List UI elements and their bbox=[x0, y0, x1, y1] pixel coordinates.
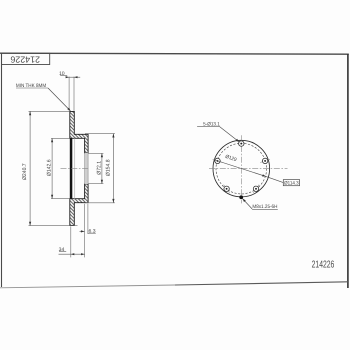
Ø129 diagonal line bbox=[215, 160, 266, 176]
drawing frame bottom line right part bbox=[175, 282, 348, 285]
dim Ø154.8 arrow up bbox=[112, 134, 114, 138]
dim Ø240.7 line bbox=[29, 111, 31, 225]
title block box bbox=[2, 53, 50, 64]
svg-text:10: 10 bbox=[59, 71, 65, 77]
boxed dim Ø114.3 arrow bbox=[262, 174, 266, 176]
hub bore band right edge bbox=[87, 153, 89, 184]
svg-text:Ø142.6: Ø142.6 bbox=[46, 159, 52, 176]
rotor upper half section (hatched) bbox=[70, 111, 88, 152]
dim Ø240.7 extension top bbox=[29, 110, 70, 112]
radial tick hole lower-left bbox=[224, 185, 230, 193]
radial tick hole right bbox=[260, 159, 270, 162]
dim 34 arrow right bbox=[81, 253, 85, 255]
dim Ø72.1 arrow up bbox=[101, 153, 103, 157]
dim Ø240.7 extension bottom bbox=[29, 225, 78, 227]
dim Ø240.7 arrow down bbox=[29, 222, 31, 226]
svg-text:Ø72.1: Ø72.1 bbox=[97, 161, 103, 175]
drawing frame right line bbox=[347, 54, 349, 288]
section centre line bbox=[61, 168, 89, 170]
dim 10 underline bbox=[60, 74, 67, 76]
note MIN THK 8MM arrow bbox=[67, 108, 70, 111]
svg-text:Ø240.7: Ø240.7 bbox=[22, 163, 28, 180]
bolt hole lower-right bbox=[253, 186, 258, 191]
hub outer circle bbox=[213, 140, 270, 197]
bolt hole left bbox=[215, 158, 220, 163]
dim 10 arrow left bbox=[66, 76, 70, 78]
dim Ø72.1 extension top bbox=[88, 152, 103, 154]
dim Ø154.8 extension top bbox=[85, 133, 115, 135]
bolt circle (dashed) bbox=[216, 143, 267, 194]
vertical centre line bbox=[240, 135, 242, 203]
note MIN THK 8MM leader bbox=[48, 88, 70, 111]
drawing frame bottom line bbox=[0, 285, 175, 288]
hub bore band left edge bbox=[84, 153, 86, 184]
dim 34 extension left bbox=[70, 226, 72, 257]
rotor right face thin line bbox=[74, 138, 76, 198]
svg-text:34: 34 bbox=[59, 247, 65, 253]
bolt hole right bbox=[262, 158, 267, 163]
dim 10 extension right bbox=[73, 77, 75, 111]
label M8x1.25-6H arrow bbox=[243, 199, 246, 202]
dim Ø240.7 arrow up bbox=[29, 111, 31, 115]
dim 10 extension left bbox=[68, 77, 70, 111]
dim 34 arrow left bbox=[71, 253, 75, 255]
dim Ø142.6 extension top bbox=[51, 137, 70, 139]
dim Ø154.8 arrow down bbox=[112, 199, 114, 203]
dim Ø142.6 extension bottom bbox=[51, 198, 70, 200]
dim 10 line bbox=[67, 76, 80, 78]
threaded hole M8 (filled) bbox=[239, 195, 243, 199]
label 5-Ø13.1 arrow bbox=[236, 139, 240, 142]
radial tick hole left bbox=[213, 159, 223, 162]
svg-text:214226: 214226 bbox=[312, 259, 335, 270]
drawing frame top line bbox=[0, 53, 349, 54]
dim Ø142.6 arrow up bbox=[51, 138, 53, 142]
svg-text:Ø129: Ø129 bbox=[224, 154, 237, 163]
dim 10 arrow right bbox=[74, 76, 78, 78]
bolt hole lower-left bbox=[224, 186, 229, 191]
hub bore band bbox=[85, 153, 88, 184]
dim 6.3 line bbox=[80, 230, 85, 232]
dim Ø72.1 extension bottom bbox=[88, 183, 103, 185]
boxed dim Ø114.3 box bbox=[283, 180, 299, 186]
rotor mid web thick line bbox=[70, 138, 73, 198]
dim 34 extension right bbox=[84, 204, 86, 258]
rotor lower half section (hatched) bbox=[70, 184, 88, 226]
dim 6.3 extension right bbox=[87, 204, 89, 234]
note MIN THK 8MM underline bbox=[16, 87, 48, 89]
dim Ø142.6 line bbox=[51, 138, 53, 198]
dim 34 underline bbox=[59, 251, 66, 253]
radial tick hole lower-right bbox=[253, 185, 259, 193]
label M8x1.25-6H underline bbox=[252, 208, 278, 210]
dim Ø154.8 extension bottom bbox=[85, 202, 115, 204]
horizontal centre line bbox=[209, 168, 288, 170]
bolt hole top bbox=[239, 141, 244, 146]
dim 6.3 underline bbox=[88, 232, 96, 234]
dim Ø72.1 line bbox=[101, 153, 103, 183]
label 5-Ø13.1 leader bbox=[219, 126, 239, 141]
drawing frame left line bbox=[1, 53, 3, 287]
dim Ø72.1 arrow down bbox=[101, 180, 103, 184]
svg-text:Ø114.3: Ø114.3 bbox=[284, 181, 299, 187]
label M8x1.25-6H leader bbox=[243, 199, 253, 209]
label 5-Ø13.1 underline bbox=[197, 125, 219, 127]
dim Ø142.6 arrow down bbox=[51, 195, 53, 199]
dim 34 line bbox=[59, 253, 85, 255]
svg-text:Ø154.8: Ø154.8 bbox=[106, 159, 112, 176]
dim Ø154.8 line bbox=[112, 134, 114, 203]
dim 6.3 arrow bbox=[81, 230, 85, 232]
svg-text:214226: 214226 bbox=[10, 54, 40, 64]
boxed dim Ø114.3 leader bbox=[266, 176, 284, 182]
